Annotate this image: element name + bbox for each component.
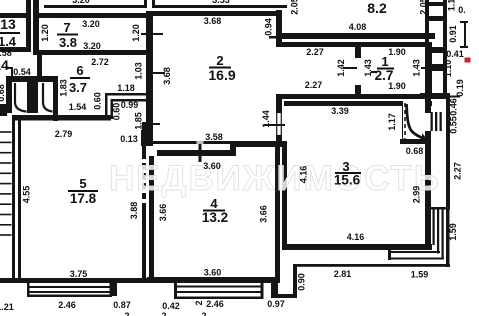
svg-text:6: 6	[76, 63, 83, 78]
svg-text:14: 14	[0, 57, 9, 73]
svg-text:1.10: 1.10	[443, 60, 453, 78]
svg-text:0.97: 0.97	[267, 299, 285, 309]
svg-text:3.53: 3.53	[212, 0, 230, 5]
svg-text:0.68: 0.68	[0, 84, 6, 102]
svg-text:1.43: 1.43	[363, 59, 373, 77]
svg-text:1.90: 1.90	[388, 81, 406, 91]
svg-text:2.72: 2.72	[91, 57, 109, 67]
svg-text:3.66: 3.66	[259, 205, 269, 223]
svg-text:4.16: 4.16	[347, 232, 365, 242]
svg-text:2: 2	[194, 300, 204, 305]
svg-text:2.05: 2.05	[290, 0, 300, 15]
svg-text:2.81: 2.81	[334, 269, 352, 279]
svg-text:0.54: 0.54	[13, 67, 31, 77]
svg-text:15.6: 15.6	[334, 173, 361, 188]
svg-text:0.55: 0.55	[449, 116, 459, 134]
svg-text:2.27: 2.27	[453, 162, 463, 180]
svg-text:4.55: 4.55	[22, 186, 32, 204]
svg-text:1.18: 1.18	[117, 83, 135, 93]
svg-text:2.46: 2.46	[58, 300, 76, 310]
svg-text:3.8: 3.8	[59, 35, 77, 50]
svg-text:1.59: 1.59	[411, 270, 429, 280]
svg-text:0.60: 0.60	[93, 92, 103, 110]
svg-text:2: 2	[124, 311, 129, 316]
svg-text:1.85: 1.85	[134, 112, 144, 130]
svg-text:1: 1	[381, 54, 388, 69]
svg-text:0.46: 0.46	[449, 98, 459, 116]
svg-text:3.58: 3.58	[205, 132, 223, 142]
svg-text:2.27: 2.27	[306, 47, 324, 57]
svg-text:2: 2	[161, 311, 166, 316]
svg-text:4.08: 4.08	[349, 22, 367, 32]
svg-text:3.60: 3.60	[203, 161, 221, 171]
svg-text:1.03: 1.03	[134, 62, 144, 80]
svg-text:3.7: 3.7	[69, 80, 87, 95]
svg-text:3.88: 3.88	[129, 202, 139, 220]
svg-text:1.1: 1.1	[447, 0, 457, 11]
svg-text:2: 2	[201, 311, 206, 316]
svg-text:0.: 0.	[458, 5, 466, 15]
svg-text:2.27: 2.27	[305, 80, 323, 90]
svg-text:1.90: 1.90	[388, 47, 406, 57]
svg-text:2: 2	[216, 53, 223, 68]
svg-text:0.13: 0.13	[120, 134, 138, 144]
svg-text:2.46: 2.46	[206, 299, 224, 309]
svg-text:0.68: 0.68	[406, 146, 424, 156]
svg-text:1.20: 1.20	[131, 24, 141, 42]
svg-text:5: 5	[79, 176, 86, 191]
svg-text:13: 13	[0, 16, 16, 32]
svg-text:4.16: 4.16	[299, 166, 309, 184]
svg-text:0.41: 0.41	[446, 49, 464, 59]
svg-text:1.20: 1.20	[40, 24, 50, 42]
svg-text:17.8: 17.8	[70, 191, 97, 206]
svg-text:3.20: 3.20	[72, 0, 90, 5]
svg-text:13.2: 13.2	[202, 210, 228, 225]
svg-text:3.60: 3.60	[204, 268, 222, 278]
svg-text:0.91: 0.91	[448, 25, 458, 43]
svg-text:1.44: 1.44	[261, 110, 271, 128]
svg-text:1.43: 1.43	[412, 59, 422, 77]
svg-text:0.90: 0.90	[297, 273, 307, 291]
svg-text:0.94: 0.94	[264, 18, 274, 36]
svg-text:3.68: 3.68	[204, 16, 222, 26]
svg-text:2.05: 2.05	[419, 0, 429, 15]
svg-text:1.21: 1.21	[0, 302, 14, 312]
svg-text:0.87: 0.87	[113, 300, 131, 310]
svg-text:8.2: 8.2	[367, 0, 387, 16]
svg-text:3.66: 3.66	[158, 204, 168, 222]
svg-text:3.75: 3.75	[70, 269, 88, 279]
svg-text:0.19: 0.19	[455, 79, 465, 97]
svg-text:1.83: 1.83	[59, 79, 69, 97]
svg-text:3.20: 3.20	[82, 19, 100, 29]
svg-text:2.99: 2.99	[412, 186, 422, 204]
svg-text:2.79: 2.79	[55, 129, 73, 139]
svg-text:1.59: 1.59	[448, 223, 458, 241]
svg-text:0.42: 0.42	[162, 301, 180, 311]
svg-text:7: 7	[63, 20, 70, 35]
svg-text:4: 4	[210, 196, 218, 211]
svg-text:НЕДВИЖИМОСТЬ: НЕДВИЖИМОСТЬ	[109, 159, 441, 198]
svg-text:1.4: 1.4	[0, 34, 17, 49]
svg-text:1.54: 1.54	[69, 102, 87, 112]
svg-text:1.17: 1.17	[387, 113, 397, 131]
svg-text:16.9: 16.9	[208, 67, 235, 83]
svg-text:3.20: 3.20	[83, 41, 101, 51]
svg-text:3.68: 3.68	[162, 67, 172, 85]
svg-text:3.39: 3.39	[331, 106, 349, 116]
svg-text:0.99: 0.99	[121, 100, 139, 110]
svg-text:1.42: 1.42	[336, 59, 346, 77]
